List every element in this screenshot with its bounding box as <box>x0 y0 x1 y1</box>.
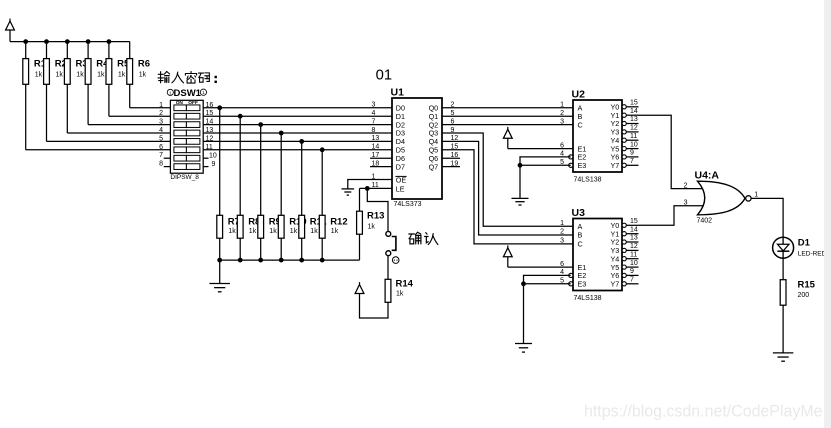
svg-text:1: 1 <box>560 220 564 227</box>
wire tap down to R12 <box>321 150 323 216</box>
svg-text:U4:A: U4:A <box>695 169 720 181</box>
svg-text:6: 6 <box>159 144 163 151</box>
svg-text:LED-RED: LED-RED <box>798 250 827 257</box>
svg-text:DIPSW_8: DIPSW_8 <box>170 174 199 181</box>
wire U1 Q3 to U3 A <box>442 133 573 226</box>
junction dots on power rail <box>23 39 111 44</box>
push button (confirm) <box>386 231 399 263</box>
wire DSW1 pin 14 to U1 D2 <box>203 124 392 126</box>
wire power to U3 E1 <box>508 266 573 268</box>
wire R4 to DSW1 pin 3 <box>88 124 170 126</box>
svg-text:D7: D7 <box>396 162 405 171</box>
resistor R3 1k <box>64 42 87 133</box>
power symbol at U3 E1 <box>503 245 512 267</box>
DSW1 right pin numbers 16-9 <box>206 102 217 168</box>
svg-text:5: 5 <box>159 135 163 142</box>
svg-text:https://blog.csdn.net/CodePlay: https://blog.csdn.net/CodePlayMe <box>584 402 823 420</box>
wire power to U2 E1 <box>508 148 573 150</box>
wire tap down to R8 <box>239 116 241 215</box>
DSW1 pin 7 stub <box>164 157 171 159</box>
resistor R15 200 <box>780 279 815 305</box>
U1 right pin numbers <box>451 102 459 168</box>
wire DSW1 pin 15 to U1 D1 <box>203 115 392 117</box>
ground at U1 OE <box>342 189 355 195</box>
svg-text:1k: 1k <box>139 71 147 78</box>
svg-text:7402: 7402 <box>697 217 713 224</box>
wire LED to R15 <box>782 258 784 280</box>
U2 left pin numbers <box>560 102 564 167</box>
wire LE branch to button <box>367 188 388 231</box>
wire R15 to ground <box>782 305 784 353</box>
U3 right pin numbers and stubs <box>626 218 638 284</box>
svg-text:Q7: Q7 <box>429 162 439 171</box>
ground at R15 <box>773 353 794 361</box>
DSW1 pin 10 stub <box>203 157 208 159</box>
svg-text:14: 14 <box>372 144 380 151</box>
resistor R5 1k <box>106 42 130 117</box>
svg-text:10: 10 <box>209 153 217 160</box>
power symbol at U2 E1 <box>503 127 512 149</box>
svg-text:1k: 1k <box>368 223 376 230</box>
U2 right pin numbers and stubs <box>626 100 638 166</box>
wire tap down to R11 <box>301 141 303 215</box>
junction dot tap to R7 <box>217 105 222 110</box>
svg-text:1k: 1k <box>97 71 105 78</box>
resistor R11 1k <box>299 215 328 260</box>
svg-text:LE: LE <box>396 184 405 193</box>
svg-text:1: 1 <box>169 90 172 95</box>
wire R1 to DSW1 pin 6 <box>26 149 171 151</box>
wire R6 to DSW1 pin 1 <box>130 107 171 109</box>
svg-text:13: 13 <box>630 116 638 123</box>
svg-text:R14: R14 <box>396 278 414 289</box>
svg-text:3: 3 <box>684 200 688 207</box>
resistor R9 1k <box>258 215 281 260</box>
wire U3 Y0 to U4 pin 3 <box>639 206 704 226</box>
U3 left pin numbers <box>560 220 564 285</box>
svg-text:2: 2 <box>560 110 564 117</box>
resistor R4 1k <box>85 42 109 125</box>
svg-text:3: 3 <box>560 118 564 125</box>
svg-text:C: C <box>578 120 583 129</box>
svg-text:1k: 1k <box>310 228 318 235</box>
svg-text:3: 3 <box>159 119 163 126</box>
resistor R1 1k <box>23 42 47 150</box>
wire U1 Q0 to U2 A <box>442 107 573 109</box>
svg-text:8: 8 <box>159 161 163 168</box>
svg-text:13: 13 <box>372 135 380 142</box>
svg-text:7: 7 <box>372 118 376 125</box>
DSW1 pin 8 stub <box>164 166 171 168</box>
junction dots on bottom rail <box>217 258 324 263</box>
wire bottom rail under R7-R12 to R13 <box>220 259 360 261</box>
wire tap down to R9 <box>260 125 262 216</box>
resistor R2 1k <box>44 42 67 142</box>
junction dot U2 E3 <box>518 163 523 168</box>
wire U2 Y1 to U4 pin 2 <box>639 115 704 188</box>
svg-text:1k: 1k <box>331 228 339 235</box>
svg-text:1k: 1k <box>290 228 298 235</box>
LED D1 LED-RED <box>773 237 827 258</box>
U1 pin Q7 stub <box>442 166 460 168</box>
wire U1 Q2 to U2 C <box>442 124 573 126</box>
wire DSW1 pin 13 to U1 D3 <box>203 132 392 134</box>
wire U1 Q1 to U2 B <box>442 115 573 117</box>
svg-text:U2: U2 <box>572 88 586 100</box>
svg-text:1k: 1k <box>249 228 257 235</box>
wire U1 OE to ground <box>348 180 392 189</box>
svg-text:B: B <box>578 231 583 240</box>
svg-text:7: 7 <box>159 152 163 159</box>
svg-text:DSW1: DSW1 <box>174 88 202 99</box>
svg-text:1k: 1k <box>269 228 277 235</box>
svg-text:D1: D1 <box>798 237 811 248</box>
decoder IC U3 74LS138 body <box>569 207 627 302</box>
wire R2 to DSW1 pin 5 <box>47 140 171 142</box>
resistor R14 1k <box>385 278 414 302</box>
svg-text:E3: E3 <box>578 161 587 170</box>
svg-text:Y7: Y7 <box>611 280 620 289</box>
svg-text:3: 3 <box>372 102 376 109</box>
svg-text:13: 13 <box>630 235 638 242</box>
svg-text:C: C <box>578 240 583 249</box>
decoder IC U2 74LS138 body <box>569 88 627 183</box>
svg-text:4: 4 <box>372 110 376 117</box>
ground under R7 rail <box>209 284 230 292</box>
svg-text:9: 9 <box>630 150 634 157</box>
svg-text:1k: 1k <box>396 290 404 297</box>
junction dot U3 E3 <box>521 281 526 286</box>
svg-text:11: 11 <box>630 133 637 140</box>
svg-text:R13: R13 <box>367 211 384 222</box>
svg-text:R6: R6 <box>138 58 150 69</box>
wire U1 Q4 to U3 B <box>442 141 573 235</box>
DSW1 pin 9 stub <box>203 166 208 168</box>
junction dot tap to R9 <box>258 122 263 127</box>
svg-text:10: 10 <box>630 141 638 148</box>
wire top power rail <box>10 41 130 43</box>
svg-text:1k: 1k <box>228 228 236 235</box>
wire U3 E2/E3 to ground <box>524 275 571 283</box>
svg-text:15: 15 <box>630 100 638 107</box>
svg-text:1k: 1k <box>35 71 43 78</box>
DSW1 left pin numbers 1-8 <box>159 102 163 168</box>
svg-text:200: 200 <box>798 292 810 299</box>
svg-text:4: 4 <box>159 127 163 134</box>
svg-text:R15: R15 <box>798 279 816 290</box>
svg-text:01: 01 <box>376 68 392 84</box>
svg-text:2: 2 <box>159 110 163 117</box>
wire U4 output to LED <box>751 198 783 237</box>
svg-text:1k: 1k <box>76 71 84 78</box>
wire U2 E2/E3 to ground <box>520 157 571 165</box>
svg-text:1: 1 <box>202 90 205 95</box>
svg-text:1k: 1k <box>118 71 126 78</box>
resistor R10 1k <box>278 215 306 260</box>
svg-text:10: 10 <box>630 260 638 267</box>
svg-text:9: 9 <box>630 268 634 275</box>
resistor R7 1k <box>217 215 240 260</box>
svg-text:1: 1 <box>560 102 564 109</box>
wire DSW1 pin 12 to U1 D4 <box>203 140 392 142</box>
svg-text:11: 11 <box>630 251 637 258</box>
svg-text:2: 2 <box>684 182 688 189</box>
NOR gate U4:A 7402 <box>695 169 752 224</box>
wire R3 to DSW1 pin 4 <box>67 132 170 134</box>
svg-text:12: 12 <box>630 125 638 132</box>
junction dot LE-button branch <box>365 186 370 191</box>
svg-text:9: 9 <box>212 161 216 168</box>
svg-text:R12: R12 <box>330 216 347 227</box>
wire tap down to R7 <box>219 108 221 216</box>
resistor R12 1k <box>319 215 347 260</box>
resistor R13 1k <box>357 211 385 261</box>
svg-text:15: 15 <box>630 218 638 225</box>
wire R13 top <box>359 188 361 211</box>
op IC U1 74LS373 body <box>391 87 443 208</box>
junction dot tap to R8 <box>238 114 243 119</box>
junction dot tap to R12 <box>320 147 325 152</box>
U4 input pin numbers <box>684 182 688 206</box>
svg-text:12: 12 <box>630 243 638 250</box>
svg-text:1: 1 <box>754 191 758 198</box>
power symbol at R14 <box>355 282 364 293</box>
wire DSW1 pin 11 to U1 D5 <box>203 149 392 151</box>
svg-text:E3: E3 <box>578 280 587 289</box>
svg-text:7: 7 <box>630 277 634 284</box>
svg-text:Y7: Y7 <box>611 161 620 170</box>
wire rail to ground <box>219 260 221 283</box>
svg-text:8: 8 <box>372 127 376 134</box>
wire DSW1 pin 16 to U1 D0 <box>203 107 392 109</box>
svg-text:A: A <box>578 222 583 231</box>
svg-text:1: 1 <box>159 102 163 109</box>
U1 left pin numbers <box>372 102 380 190</box>
resistor R6 1k <box>127 42 150 108</box>
svg-text:74LS138: 74LS138 <box>574 177 602 184</box>
wire R5 to DSW1 pin 2 <box>109 115 170 117</box>
wire button to R14 <box>387 255 389 279</box>
wire tap down to R10 <box>280 133 282 215</box>
junction dot tap to R10 <box>279 131 284 136</box>
wire U1 LE to R13 <box>360 187 393 189</box>
svg-text:74LS138: 74LS138 <box>574 295 602 302</box>
wire R14 to power <box>360 294 389 319</box>
svg-text:3: 3 <box>560 238 564 245</box>
ground at U3 <box>515 344 532 353</box>
svg-text:14: 14 <box>630 108 638 115</box>
svg-text:U3: U3 <box>572 207 586 219</box>
resistor R8 1k <box>237 215 260 260</box>
svg-text:U1: U1 <box>391 87 405 99</box>
U1 pin Q6 stub <box>442 157 460 159</box>
label (Chinese): input password <box>158 71 217 83</box>
U1 pin D7 stub <box>370 166 392 168</box>
power symbol VCC (top-left) <box>6 19 15 42</box>
wire U1 Q5 to U3 C <box>442 150 573 244</box>
svg-text:7: 7 <box>630 158 634 165</box>
svg-text:1k: 1k <box>56 71 64 78</box>
label (Chinese): confirm <box>409 232 438 244</box>
svg-text:14: 14 <box>630 226 638 233</box>
ground at U2 <box>512 198 529 205</box>
switch DSW1 DIPSW_8 <box>167 88 206 181</box>
U1 pin D6 stub <box>370 157 392 159</box>
svg-text:2: 2 <box>560 229 564 236</box>
junction dot tap to R11 <box>299 139 304 144</box>
right scrollbar strip <box>824 0 831 428</box>
svg-text:74LS373: 74LS373 <box>394 201 422 208</box>
